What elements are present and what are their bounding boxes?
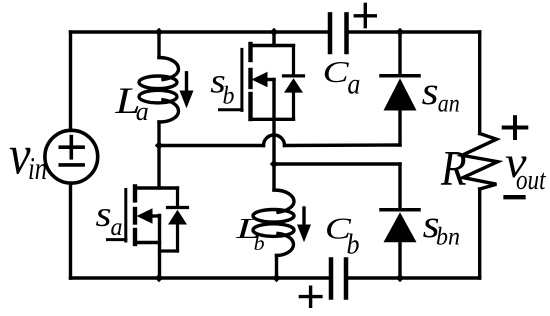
svg-text:s: s: [422, 70, 439, 113]
svg-text:in: in: [28, 150, 47, 186]
svg-text:b: b: [254, 233, 265, 255]
svg-text:a: a: [136, 97, 149, 126]
svg-text:an: an: [438, 91, 460, 118]
svg-text:b: b: [347, 230, 360, 261]
svg-text:R: R: [440, 140, 466, 196]
svg-text:s: s: [96, 194, 112, 234]
svg-text:a: a: [347, 68, 360, 101]
svg-text:bn: bn: [436, 224, 460, 251]
svg-text:a: a: [111, 214, 123, 241]
svg-text:C: C: [323, 54, 349, 89]
svg-text:b: b: [223, 83, 235, 110]
svg-text:out: out: [516, 165, 547, 196]
